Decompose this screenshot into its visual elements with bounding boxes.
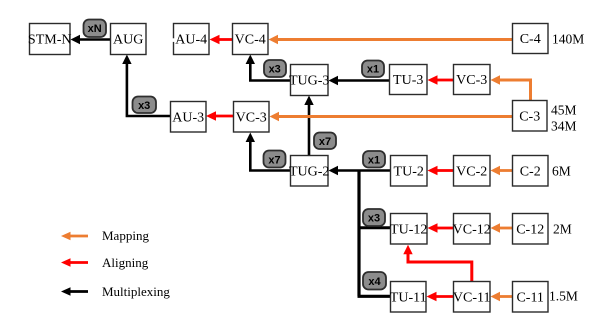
- svg-text:x1: x1: [368, 154, 380, 166]
- svg-text:6M: 6M: [552, 164, 571, 179]
- svg-text:34M: 34M: [551, 119, 577, 134]
- wire VC-11 to TU-11 (aligning): [427, 292, 454, 301]
- wire TU-2 to TUG-2 (multiplexing x1): [329, 166, 391, 175]
- legend aligning arrow: [61, 258, 88, 267]
- wire TUG-2 to TUG-3 (multiplexing x7, vertical): [304, 96, 313, 156]
- wire C-3 to VC-3 (mapping, elbow): [491, 75, 531, 100]
- box VC-2: [454, 156, 491, 187]
- wire VC-3 to TU-3 (aligning): [428, 75, 454, 84]
- svg-text:VC-12: VC-12: [453, 223, 491, 238]
- label x3 (TU-12 branch): [363, 209, 385, 226]
- svg-text:AUG: AUG: [113, 33, 143, 48]
- svg-text:C-11: C-11: [516, 291, 543, 306]
- svg-text:140M: 140M: [552, 32, 584, 47]
- box TU-11: [390, 282, 427, 313]
- svg-text:C-4: C-4: [520, 32, 541, 47]
- box AU-3: [171, 102, 207, 133]
- box VC-4: [233, 24, 269, 55]
- legend multiplexing arrow: [61, 287, 88, 296]
- box VC-3: [454, 65, 491, 95]
- wire AU-3 to AUG (multiplexing x3, elbow): [122, 55, 170, 117]
- wire trunk from TU-2 line down to TU-11 with branches: [358, 171, 391, 297]
- wire AUG to STM-N (multiplexing xN): [71, 35, 111, 44]
- wire TU-3 to TUG-3 (multiplexing x1): [329, 76, 390, 85]
- svg-text:VC-2: VC-2: [456, 165, 487, 180]
- label x4 (TU-11 branch): [363, 272, 386, 290]
- box C-3: [513, 101, 548, 132]
- svg-text:45M: 45M: [551, 103, 577, 118]
- box C-12: [513, 214, 549, 245]
- box VC-11: [453, 282, 491, 313]
- svg-text:1.5M: 1.5M: [549, 289, 578, 304]
- wire VC-2 to TU-2 (aligning): [428, 166, 454, 175]
- svg-text:x3: x3: [368, 213, 380, 225]
- svg-text:TU-11: TU-11: [390, 291, 427, 306]
- svg-text:TUG-2: TUG-2: [289, 165, 329, 180]
- box TUG-2: [289, 156, 329, 187]
- svg-text:AU-3: AU-3: [172, 111, 204, 126]
- label x3 (TUG-3 to VC-4): [264, 60, 286, 77]
- box C-4: [513, 24, 549, 54]
- legend mapping arrow: [61, 232, 88, 241]
- wire C-4 to VC-4 (mapping): [269, 35, 513, 44]
- label xN: [84, 20, 107, 38]
- label x7 (TUG-2 to TUG-3): [314, 133, 336, 150]
- svg-text:Mapping: Mapping: [102, 228, 149, 243]
- wire C-12 to VC-12 (mapping): [491, 223, 513, 232]
- label x1 (TU-3 to TUG-3): [362, 61, 384, 78]
- box TU-12: [390, 214, 427, 245]
- svg-text:TU-12: TU-12: [390, 223, 427, 238]
- box TU-2: [391, 156, 428, 187]
- svg-text:x4: x4: [368, 276, 381, 288]
- svg-text:VC-3: VC-3: [456, 73, 487, 88]
- wire VC-12 to TU-12 (aligning): [428, 223, 454, 232]
- svg-text:x3: x3: [138, 100, 150, 112]
- box VC-3 row3: [234, 102, 270, 133]
- wire C-3 to VC-3 row3 (mapping, long): [270, 112, 513, 121]
- svg-text:AU-4: AU-4: [175, 33, 207, 48]
- svg-text:VC-4: VC-4: [235, 33, 266, 48]
- wire VC-4 to AU-4 (aligning): [210, 35, 233, 44]
- box C-11: [513, 282, 549, 313]
- box TUG-3: [289, 65, 329, 96]
- svg-text:Multiplexing: Multiplexing: [102, 284, 170, 299]
- wire C-2 to VC-2 (mapping): [491, 166, 513, 175]
- svg-text:Aligning: Aligning: [102, 255, 149, 270]
- svg-text:x7: x7: [319, 136, 331, 148]
- svg-text:VC-11: VC-11: [453, 291, 491, 306]
- wire TUG-3 to VC-4 (multiplexing x3): [246, 55, 290, 81]
- svg-text:TUG-3: TUG-3: [289, 74, 329, 89]
- wire VC-11 to TU-12 (aligning, elbow): [403, 245, 472, 281]
- svg-text:STM-N: STM-N: [28, 33, 72, 48]
- svg-text:x3: x3: [269, 63, 281, 75]
- label x3 (AU-3 to AUG): [133, 97, 157, 114]
- label x1 (TU-2 to TUG-2): [363, 151, 385, 168]
- box STM-N: [28, 24, 72, 55]
- svg-text:VC-3: VC-3: [236, 111, 267, 126]
- wire C-11 to VC-11 (mapping): [491, 292, 513, 301]
- svg-text:TU-2: TU-2: [394, 165, 424, 180]
- box VC-12: [453, 214, 491, 245]
- svg-text:xN: xN: [88, 23, 102, 35]
- box AUG: [111, 24, 147, 55]
- svg-text:C-3: C-3: [519, 110, 540, 125]
- svg-text:2M: 2M: [553, 222, 572, 237]
- svg-text:C-2: C-2: [520, 165, 541, 180]
- svg-text:x7: x7: [268, 154, 280, 166]
- box TU-3: [390, 65, 428, 95]
- box C-2: [513, 156, 549, 187]
- svg-text:x1: x1: [367, 63, 379, 75]
- svg-text:C-12: C-12: [516, 223, 544, 238]
- svg-text:TU-3: TU-3: [393, 73, 423, 88]
- wire VC-3 row3 to AU-3 (aligning): [206, 111, 233, 120]
- label x7 (TUG-2 to VC-3): [264, 151, 286, 168]
- box AU-4: [172, 24, 209, 55]
- wire TUG-2 to VC-3 row3 (multiplexing x7, elbow): [246, 133, 290, 171]
